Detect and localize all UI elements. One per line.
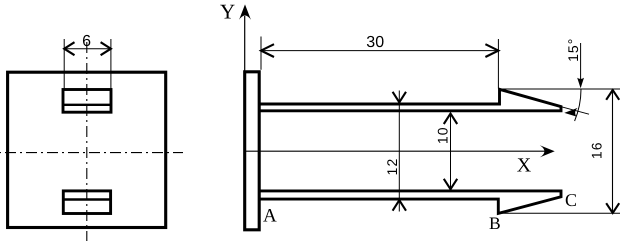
svg-text:X: X xyxy=(517,154,532,176)
svg-text:Y: Y xyxy=(220,0,235,23)
svg-text:30: 30 xyxy=(366,34,384,51)
svg-text:10: 10 xyxy=(435,126,451,144)
svg-text:C: C xyxy=(565,190,577,210)
svg-text:B: B xyxy=(489,213,501,233)
svg-text:16: 16 xyxy=(589,141,605,159)
svg-text:A: A xyxy=(263,206,277,227)
svg-text:6: 6 xyxy=(82,33,91,50)
svg-text:15°: 15° xyxy=(565,38,581,62)
svg-text:12: 12 xyxy=(384,158,400,176)
